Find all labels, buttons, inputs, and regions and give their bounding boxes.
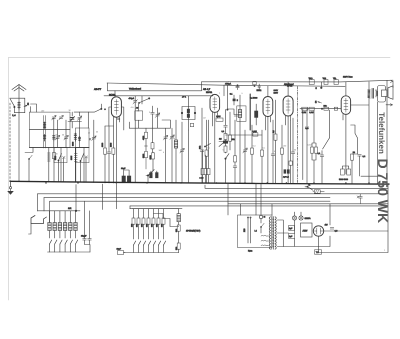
wire end arrows bbox=[390, 80, 392, 106]
svg-text:0,1: 0,1 bbox=[222, 130, 225, 133]
svg-text:0,1: 0,1 bbox=[263, 147, 266, 150]
speaker frame bbox=[378, 86, 386, 103]
resistor R6 bbox=[142, 128, 147, 151]
tube T5 bbox=[341, 96, 350, 115]
resistor R19 bbox=[351, 125, 378, 184]
wire screen line bbox=[300, 108, 341, 110]
wire junction bbox=[105, 125, 113, 127]
resistor R20 hatched bbox=[313, 190, 324, 193]
capacitor bridging buses at x257 bbox=[253, 81, 261, 89]
capacitor C13 bbox=[198, 108, 204, 183]
svg-text:022: 022 bbox=[175, 229, 178, 232]
capacitor C8 dark bbox=[122, 170, 131, 182]
trimmer C10 bbox=[163, 128, 167, 183]
resistor R16 bbox=[324, 104, 329, 110]
resistor R10 bbox=[229, 112, 235, 150]
wire vertical bbox=[296, 86, 298, 183]
bracket lever bbox=[29, 216, 47, 235]
speaker magnet bbox=[382, 90, 388, 97]
tall coil box bbox=[135, 104, 143, 128]
svg-text:3000: 3000 bbox=[101, 143, 104, 147]
svg-text:TRO: TRO bbox=[309, 77, 314, 80]
box band B bbox=[29, 129, 70, 147]
svg-text:Netz: Netz bbox=[248, 250, 252, 253]
mains pair bbox=[243, 217, 251, 243]
wire left edge down bbox=[9, 103, 11, 181]
svg-text:4µF 0,2: 4µF 0,2 bbox=[283, 176, 289, 179]
svg-text:100: 100 bbox=[41, 109, 44, 112]
box mains bbox=[238, 215, 273, 248]
svg-text:0,1 5000: 0,1 5000 bbox=[250, 97, 257, 100]
box bottom emphasis bbox=[29, 147, 89, 149]
svg-text:25: 25 bbox=[88, 132, 90, 135]
transformer primary taps bbox=[261, 235, 269, 245]
svg-text:0,1: 0,1 bbox=[230, 93, 233, 96]
svg-text:5: 5 bbox=[163, 151, 164, 154]
resistor R12 bbox=[261, 130, 264, 183]
wire top bus bbox=[202, 80, 394, 82]
box band A bbox=[29, 112, 70, 129]
svg-text:000: 000 bbox=[161, 224, 164, 227]
capacitor C26 bbox=[357, 194, 362, 204]
capacitor C21 C22 bbox=[339, 166, 351, 181]
switch mains bbox=[260, 223, 264, 233]
resistor R18 pair bbox=[311, 110, 318, 183]
svg-text:4500: 4500 bbox=[142, 136, 145, 140]
volume pot arrow bbox=[219, 138, 226, 147]
transformer secondary winding bbox=[275, 217, 276, 249]
svg-text:2P4B8/5(72fV): 2P4B8/5(72fV) bbox=[186, 230, 201, 233]
svg-text:1M: 1M bbox=[219, 138, 222, 141]
coil L3 bbox=[74, 133, 76, 141]
svg-text:5: 5 bbox=[247, 147, 248, 150]
svg-text:0,5M: 0,5M bbox=[308, 144, 313, 147]
svg-text:EBF11: EBF11 bbox=[206, 91, 213, 94]
junction dots on bus bbox=[45, 182, 369, 183]
fuse Si bbox=[259, 215, 265, 223]
svg-text:3000: 3000 bbox=[71, 142, 74, 146]
antenna coil bracket bbox=[12, 98, 24, 117]
page scan edge lines bbox=[9, 58, 391, 301]
wire h1 bbox=[38, 193, 389, 195]
wire avc line bbox=[219, 135, 262, 142]
svg-text:25µµF: 25µµF bbox=[81, 235, 87, 238]
three resistors row bbox=[200, 120, 211, 183]
caps cluster right of bank1 bbox=[81, 201, 91, 252]
svg-text:25: 25 bbox=[96, 131, 98, 134]
svg-text:AB477: AB477 bbox=[94, 88, 102, 91]
svg-text:D 750 WK: D 750 WK bbox=[375, 159, 391, 224]
resistor box mid bbox=[253, 130, 258, 136]
dark cap blob bbox=[233, 95, 239, 105]
tube T4 pins bbox=[286, 116, 291, 184]
svg-text:50k: 50k bbox=[232, 138, 235, 141]
resistor R17 bbox=[321, 107, 337, 110]
svg-text:470µA: 470µA bbox=[129, 97, 135, 100]
shield core line bbox=[249, 94, 251, 130]
svg-text:40: 40 bbox=[136, 106, 138, 109]
wire verticals driver bbox=[303, 109, 307, 180]
tube T1 pins bbox=[109, 91, 124, 183]
label 1,0M bbox=[216, 115, 223, 121]
trimmer pair dark bbox=[71, 116, 82, 121]
tube T4 bbox=[283, 96, 293, 116]
coil L4 dark bbox=[78, 128, 80, 147]
resistor R8 bbox=[205, 120, 208, 183]
wire mid shelf bbox=[129, 127, 170, 129]
switch lower bbox=[146, 170, 154, 183]
electrolytic C24 bbox=[289, 226, 295, 231]
svg-text:500: 500 bbox=[175, 247, 178, 250]
svg-text:6282A: 6282A bbox=[305, 217, 312, 220]
output transformer primary bbox=[368, 89, 371, 98]
svg-text:1000: 1000 bbox=[110, 143, 113, 147]
box TAS on top bus bbox=[323, 77, 329, 85]
trimmer CB bbox=[64, 120, 68, 147]
svg-text:0,3: 0,3 bbox=[253, 145, 256, 148]
svg-text:800: 800 bbox=[151, 224, 154, 227]
wire long verticals top area bbox=[202, 82, 289, 110]
svg-text:TAL: TAL bbox=[333, 77, 336, 80]
tube T3 bbox=[263, 97, 273, 117]
wire antenna down bbox=[18, 85, 20, 182]
svg-text:0,2: 0,2 bbox=[363, 155, 366, 158]
label TU box bbox=[315, 250, 322, 254]
resistor 1000 bbox=[149, 152, 154, 171]
IFT1 left bracket bbox=[181, 107, 188, 120]
resistor R6a bbox=[151, 128, 154, 152]
IFT1 coil blobs bbox=[187, 109, 190, 118]
wires power to right bbox=[228, 184, 388, 247]
resistor R15 bbox=[302, 107, 308, 114]
capacitor C17 bbox=[271, 120, 275, 183]
antenna switch branch bbox=[10, 98, 19, 113]
bank2 columns bbox=[132, 209, 166, 253]
resistor box under T4 bbox=[289, 120, 292, 184]
svg-text:50: 50 bbox=[56, 134, 58, 137]
ground symbol bbox=[7, 181, 14, 195]
capacitor C7 bbox=[107, 126, 111, 183]
switch on grid line bbox=[138, 98, 150, 104]
output transformer secondary bbox=[376, 91, 378, 96]
svg-text:3005: 3005 bbox=[70, 156, 73, 160]
svg-text:4W: 4W bbox=[325, 224, 328, 227]
tube T2 bbox=[210, 94, 220, 112]
power transformer core bbox=[272, 217, 274, 250]
svg-text:5: 5 bbox=[228, 81, 229, 84]
misc tiny value labels bbox=[41, 81, 386, 252]
cap trimmer cluster bbox=[151, 106, 160, 128]
label 5 below bus bbox=[316, 82, 323, 90]
trimmer C12 bbox=[180, 122, 184, 183]
right column bank2 bbox=[175, 209, 181, 253]
svg-text:0,1: 0,1 bbox=[318, 152, 321, 155]
speaker cone bbox=[388, 86, 393, 100]
resistor R13 bbox=[272, 100, 277, 184]
choke box bbox=[301, 223, 313, 237]
svg-text:5: 5 bbox=[274, 150, 275, 153]
svg-text:7: 7 bbox=[90, 138, 91, 141]
wire verticals front end bbox=[31, 104, 62, 182]
svg-text:30: 30 bbox=[69, 109, 71, 112]
svg-text:50: 50 bbox=[353, 151, 355, 154]
svg-text:50k: 50k bbox=[324, 104, 327, 107]
wire IFT1 down bbox=[187, 130, 189, 183]
wire step bbox=[328, 110, 330, 138]
svg-text:0,1: 0,1 bbox=[208, 147, 211, 150]
tube T3 pins bbox=[266, 117, 271, 184]
switch arrow label 5b bbox=[315, 100, 322, 104]
switch arrow label 5 bbox=[24, 102, 31, 112]
junction dot bbox=[75, 210, 77, 212]
trimmer CA bbox=[55, 120, 59, 147]
wire h4 bbox=[228, 203, 388, 205]
heater cap bbox=[330, 228, 338, 233]
wire shelf risers bbox=[129, 120, 170, 128]
wire bank1 top bbox=[38, 210, 81, 212]
svg-text:Telefunken: Telefunken bbox=[377, 112, 386, 154]
svg-text:3 1 5: 3 1 5 bbox=[200, 177, 204, 180]
resistor R14 bbox=[281, 125, 284, 183]
box TAL on top bus bbox=[333, 77, 338, 85]
wire bank2 bottom bbox=[124, 252, 179, 254]
electrolytic C25 bbox=[289, 234, 295, 239]
antenna bbox=[12, 85, 26, 92]
resistor R15b bbox=[309, 107, 314, 114]
wire osc top bbox=[74, 109, 101, 112]
wire h3 bbox=[50, 200, 330, 202]
IFT1 small box below bbox=[190, 123, 193, 126]
wire verticals into banks bbox=[38, 184, 131, 223]
capacitor C18 bbox=[291, 118, 295, 183]
svg-text:Wellenband: Wellenband bbox=[129, 88, 142, 91]
under-T2 chain bbox=[222, 110, 230, 183]
bank1 wires and contacts bbox=[48, 211, 91, 252]
tall coil pair bbox=[43, 116, 45, 149]
box TRO on top bus bbox=[309, 77, 315, 85]
capacitor C19 bbox=[305, 127, 309, 183]
svg-text:5: 5 bbox=[242, 92, 243, 95]
svg-text:1M: 1M bbox=[272, 130, 275, 133]
resistor R4 bbox=[101, 126, 106, 183]
switch S4 bbox=[204, 144, 210, 148]
trimmer varicap bbox=[133, 96, 138, 110]
capacitor dark pair 2 bbox=[149, 171, 158, 178]
under-box cluster 2 bbox=[70, 148, 88, 183]
svg-text:800: 800 bbox=[141, 224, 144, 227]
svg-text:160V: 160V bbox=[274, 89, 279, 92]
wire right column bbox=[386, 80, 388, 184]
wire h2 bbox=[44, 197, 330, 199]
resistor R5 bbox=[110, 126, 115, 183]
svg-text:3000: 3000 bbox=[142, 154, 145, 158]
IFT1 core line bbox=[187, 96, 189, 130]
svg-text:5: 5 bbox=[223, 149, 224, 152]
svg-text:0,1: 0,1 bbox=[137, 110, 140, 113]
wire h6 bbox=[130, 208, 182, 210]
grid dot bbox=[227, 109, 228, 110]
svg-text:411: 411 bbox=[131, 106, 134, 109]
switch S1 bbox=[25, 153, 33, 182]
svg-text:0,2: 0,2 bbox=[306, 127, 309, 130]
svg-text:AB 4,7: AB 4,7 bbox=[203, 88, 211, 91]
svg-text:1M: 1M bbox=[203, 117, 206, 120]
svg-text:b: b bbox=[111, 93, 112, 96]
coil secondary dark bbox=[255, 104, 258, 125]
switch Ta bbox=[305, 184, 313, 191]
svg-text:800: 800 bbox=[156, 224, 159, 227]
under-box row rects bbox=[54, 148, 67, 163]
tube T5 pins bbox=[343, 114, 346, 174]
trimmer C5 bbox=[90, 120, 97, 183]
transformer primary winding bbox=[269, 217, 270, 249]
wire second top bus bbox=[107, 83, 345, 86]
svg-text:0,1M: 0,1M bbox=[253, 130, 258, 133]
dark caps under T4 bbox=[283, 169, 290, 178]
resistor R11 bbox=[251, 125, 254, 183]
wire grid line bbox=[104, 95, 213, 97]
svg-text:220V Max: 220V Max bbox=[343, 75, 353, 78]
svg-text:5000 5000: 5000 5000 bbox=[339, 178, 348, 181]
svg-text:30: 30 bbox=[56, 153, 58, 156]
resistor right chain bbox=[233, 120, 237, 183]
svg-text:100: 100 bbox=[159, 149, 162, 152]
svg-text:800: 800 bbox=[146, 224, 149, 227]
wire bank2 top bbox=[132, 208, 179, 210]
box IFT2 bbox=[237, 95, 246, 183]
under-box cluster 1 bbox=[47, 147, 65, 182]
wire h0 bbox=[205, 185, 388, 188]
svg-text:50: 50 bbox=[62, 134, 64, 137]
coils bank1 bbox=[48, 223, 77, 231]
svg-text:1,0M: 1,0M bbox=[216, 115, 221, 118]
trimmer C11 bbox=[170, 128, 174, 183]
wire plate feed bbox=[345, 82, 347, 96]
IFT1 right bracket bbox=[188, 107, 195, 120]
wire band line bbox=[108, 90, 202, 92]
tube T1 bbox=[111, 97, 121, 117]
capacitor C-ift bbox=[228, 109, 238, 116]
stepped wire bbox=[154, 214, 179, 227]
trimmer C16 bbox=[243, 130, 247, 183]
bottom power line bbox=[319, 184, 389, 252]
svg-text:EB11: EB11 bbox=[257, 89, 263, 92]
coil L5 bbox=[174, 120, 177, 183]
svg-text:Tk: Tk bbox=[173, 137, 175, 140]
wire osc verticals bbox=[72, 104, 101, 182]
wire plate to speaker line bbox=[351, 81, 393, 184]
component on box right edge bbox=[70, 118, 73, 120]
wire verticals mid bbox=[135, 96, 142, 183]
resistor 3000 bbox=[142, 146, 147, 169]
svg-text:160: 160 bbox=[131, 224, 134, 227]
bank2 labels bbox=[131, 224, 164, 227]
wire h5 bbox=[130, 205, 388, 207]
svg-text:1,0M: 1,0M bbox=[309, 111, 314, 114]
capacitor bridging buses at x237 bbox=[236, 85, 239, 90]
svg-text:120V: 120V bbox=[274, 92, 279, 95]
coil dark band A bbox=[53, 118, 55, 147]
svg-text:1000: 1000 bbox=[149, 155, 152, 159]
svg-text:TU: TU bbox=[316, 251, 319, 254]
secondary taps bbox=[277, 220, 283, 247]
svg-text:02: 02 bbox=[294, 149, 296, 152]
label box bottom left bbox=[117, 248, 126, 255]
dial lamps bbox=[292, 216, 311, 220]
svg-text:50k: 50k bbox=[198, 146, 201, 149]
box osc bbox=[75, 128, 89, 147]
svg-text:3: 3 bbox=[177, 147, 178, 150]
svg-text:800: 800 bbox=[136, 224, 139, 227]
trimmer top A bbox=[52, 116, 64, 121]
svg-text:3: 3 bbox=[149, 111, 150, 114]
tube T2 pins bbox=[212, 112, 217, 183]
rectifier tube bbox=[313, 226, 323, 236]
core hatch bbox=[272, 219, 274, 247]
capacitor C20 bbox=[318, 138, 330, 184]
ground bus main bbox=[10, 181, 389, 184]
output transformer core bbox=[372, 88, 373, 98]
svg-text:150: 150 bbox=[283, 145, 286, 148]
